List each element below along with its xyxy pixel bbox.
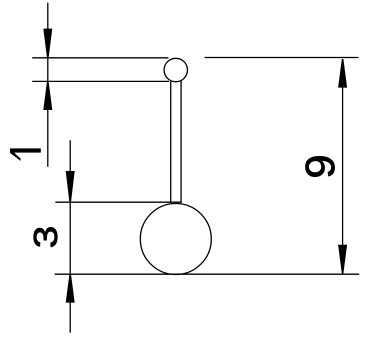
wire: top bar bottom edge bbox=[32, 80, 169, 82]
label: dim text 1 (drawn as path, rotated) bbox=[10, 148, 41, 161]
wire: dimension line 3 (vertical, x=70.2) bbox=[69, 140, 71, 332]
wire: stem left edge bbox=[170, 80, 172, 202]
arrowhead dim3 bottom (points up) bbox=[66, 274, 75, 302]
wire: top bar top edge (left segment) bbox=[32, 57, 168, 59]
wire: dimension line 1 (vertical, x=47.8) bbox=[47, 3, 49, 167]
node: large ball bbox=[140, 204, 211, 275]
arrowhead dim9 top (points up) bbox=[338, 59, 347, 88]
arrowhead dim1 bottom (points up) bbox=[43, 81, 52, 110]
svg-text:9: 9 bbox=[297, 154, 343, 178]
wire: dimension line 9 (vertical, x=342.6) bbox=[342, 59, 344, 273]
arrowhead dim9 bottom (points down) bbox=[338, 245, 347, 274]
svg-text:3: 3 bbox=[26, 226, 64, 249]
wire: stem right edge bbox=[180, 80, 182, 202]
wire: bottom ground line bbox=[55, 273, 360, 275]
wire: top extension line right (dim 9) bbox=[205, 57, 359, 59]
arrowhead dim3 top (points down) bbox=[66, 171, 75, 202]
arrowhead dim1 top (points down) bbox=[43, 29, 52, 58]
wire: extension line at ball top (dim 3) bbox=[55, 201, 181, 203]
node: small circle (pivot) bbox=[164, 58, 187, 81]
